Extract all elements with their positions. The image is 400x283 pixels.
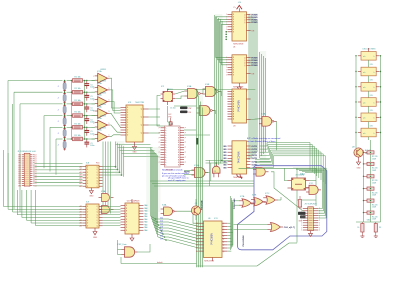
svg-text:J: J bbox=[58, 109, 59, 111]
svg-text:B: B bbox=[178, 157, 179, 159]
bus band left-center vertical bbox=[115, 142, 117, 169]
wire IC9 to U5 micro bbox=[103, 206, 121, 208]
resistor RL4 bbox=[367, 187, 374, 190]
wire input row 3 vertical drop bbox=[19, 104, 21, 212]
resistor RL6 bbox=[367, 211, 374, 214]
capacitor C1 bbox=[86, 81, 88, 84]
resistor R6 bbox=[73, 137, 83, 141]
capacitor C2 bbox=[86, 92, 88, 95]
socket X1 DIP40 bbox=[165, 126, 181, 167]
svg-text:1/4W: 1/4W bbox=[372, 219, 376, 221]
wire rails below IC5B bbox=[151, 180, 254, 182]
svg-text:D0: D0 bbox=[196, 229, 198, 231]
wire D4 to U6 bbox=[169, 231, 199, 239]
wire D0 to U6 bbox=[169, 219, 199, 226]
wire U6 right pins to bus bbox=[227, 222, 231, 224]
gate IC4B nand bbox=[206, 87, 217, 97]
net label dark block bbox=[298, 212, 306, 215]
svg-text:2: 2 bbox=[93, 111, 94, 113]
svg-text:P: P bbox=[185, 147, 186, 149]
svg-text:1/4W: 1/4W bbox=[372, 170, 376, 172]
svg-text:D0: D0 bbox=[196, 248, 198, 250]
wire xor feeds bbox=[234, 200, 240, 202]
svg-text:RA0: RA0 bbox=[144, 204, 147, 207]
display module S4 bbox=[361, 98, 376, 107]
bus staircase to IC9 inputs bbox=[3, 150, 5, 207]
U6 bottom pin gnd bbox=[212, 258, 214, 262]
svg-text:ROW4: ROW4 bbox=[252, 64, 259, 67]
svg-text:S: S bbox=[233, 75, 234, 77]
svg-text:RA0: RA0 bbox=[144, 221, 147, 224]
svg-text:74HC595N: 74HC595N bbox=[233, 44, 244, 46]
led D2 bbox=[374, 224, 377, 233]
svg-text:R1 10k: R1 10k bbox=[74, 77, 80, 79]
svg-text:J: J bbox=[58, 145, 59, 147]
display module S2 bbox=[361, 67, 376, 76]
wire 555 left feed bbox=[157, 96, 165, 127]
wire 555 to IC4A bbox=[175, 91, 185, 94]
wire bundle J1 to IC8 bbox=[35, 163, 83, 165]
svg-text:B: B bbox=[178, 159, 179, 161]
svg-text:IC4A: IC4A bbox=[187, 85, 192, 88]
svg-text:J: J bbox=[58, 86, 59, 88]
svg-text:B: B bbox=[178, 152, 179, 154]
wire rail inner top bbox=[239, 167, 317, 169]
wire display S4 chain down bbox=[368, 106, 370, 113]
crystal X2 bbox=[292, 178, 306, 190]
wire rails above IC5B bbox=[206, 159, 232, 161]
svg-text:P: P bbox=[159, 128, 160, 130]
svg-text:D0: D0 bbox=[196, 226, 198, 228]
svg-text:OUT0: OUT0 bbox=[252, 152, 258, 154]
gate IC9A inverter bbox=[102, 194, 110, 202]
wire input row 6 vertical drop bbox=[55, 139, 57, 175]
svg-text:ROW4: ROW4 bbox=[252, 59, 259, 62]
wire U3 to IC5A bbox=[251, 118, 260, 121]
wire input row 4 horizontal bbox=[44, 115, 63, 117]
svg-text:RA0: RA0 bbox=[144, 226, 147, 229]
display S6 pins bbox=[358, 132, 361, 134]
IC U9 74HC165 second bbox=[86, 204, 99, 228]
transistor Q1 bbox=[191, 206, 200, 215]
svg-text:RA0: RA0 bbox=[144, 223, 147, 226]
svg-text:A1: A1 bbox=[79, 211, 81, 214]
IC U8 74HC165 bbox=[86, 165, 99, 188]
cap rail vertical rows bbox=[84, 81, 86, 140]
wire IC6B output right bbox=[138, 244, 151, 252]
svg-text:ROW4: ROW4 bbox=[252, 56, 259, 59]
wire bottom rail right and diagonal bbox=[197, 265, 258, 267]
wire input row 5 vertical drop bbox=[49, 127, 51, 171]
gate IC5B and down bbox=[213, 166, 221, 173]
svg-text:RA0: RA0 bbox=[144, 215, 147, 218]
capacitor C6 bbox=[86, 139, 88, 142]
wire verticals left of IC5B bbox=[209, 160, 211, 186]
svg-text:B: B bbox=[178, 164, 179, 166]
op-amp IC1A comparator bbox=[98, 73, 108, 83]
svg-text:B: B bbox=[178, 150, 179, 152]
wire D5 to U6 bbox=[169, 234, 199, 242]
svg-text:1: 1 bbox=[109, 135, 110, 137]
wire rail inner right vertical bbox=[315, 168, 317, 206]
svg-text:a b: a b bbox=[363, 102, 365, 104]
pin header JP2 bbox=[308, 207, 314, 231]
gate IC6B and ICSP bbox=[125, 247, 135, 257]
svg-text:74HC245N: 74HC245N bbox=[238, 100, 241, 112]
svg-text:J1 CONN-SIL16 1x16: J1 CONN-SIL16 1x16 bbox=[17, 151, 35, 153]
wire rail jp top bbox=[297, 199, 316, 201]
capacitor C4 bbox=[86, 116, 88, 119]
bus ribbon shading bbox=[214, 14, 222, 168]
wire or feeds bbox=[234, 224, 268, 226]
svg-text:B: B bbox=[178, 140, 179, 142]
svg-text:IC6A: IC6A bbox=[162, 204, 167, 207]
display module S6 bbox=[361, 128, 376, 137]
wire Q8 stubs bbox=[358, 157, 360, 162]
wire D6 label row bbox=[165, 236, 169, 238]
IC U3 74HC245 bbox=[232, 89, 247, 123]
wire D2 label row bbox=[159, 224, 169, 226]
gate IC7C xor bbox=[266, 196, 275, 204]
connector SV1 bbox=[63, 83, 66, 90]
capacitor C5 bbox=[86, 127, 88, 130]
wire D0 label row bbox=[156, 218, 169, 220]
svg-text:R1 10k: R1 10k bbox=[74, 88, 80, 90]
svg-text:R1 10k: R1 10k bbox=[74, 135, 80, 137]
connector chain rail rows bbox=[64, 81, 66, 141]
bus outline blue polygon bbox=[238, 166, 327, 250]
svg-text:A1: A1 bbox=[79, 213, 81, 216]
svg-text:A1: A1 bbox=[79, 177, 81, 180]
bus entry D4 bbox=[155, 228, 162, 231]
wire D3 to U6 bbox=[169, 228, 199, 236]
svg-text:D0: D0 bbox=[196, 235, 198, 237]
svg-text:2: 2 bbox=[93, 135, 94, 137]
svg-text:P: P bbox=[185, 128, 186, 130]
svg-text:P: P bbox=[185, 137, 186, 139]
U4 bottom bent stubs bbox=[237, 174, 242, 179]
op-amp IC2A comparator bbox=[98, 85, 108, 95]
svg-text:IC7C: IC7C bbox=[265, 193, 270, 195]
bus entry D5 bbox=[156, 231, 163, 234]
svg-text:GND: GND bbox=[89, 196, 94, 198]
junction node row 6 bbox=[64, 138, 66, 140]
display S5 pins bbox=[358, 116, 361, 118]
svg-text:S: S bbox=[233, 67, 234, 69]
IC U5 PIC16F628 bbox=[125, 203, 139, 234]
bus entry D3 bbox=[153, 225, 160, 228]
wire crystal connections bbox=[285, 168, 288, 180]
wire IC3 outputs to socket bbox=[149, 108, 161, 110]
svg-text:RA0: RA0 bbox=[144, 210, 147, 213]
wire socket to gates bbox=[184, 129, 196, 131]
svg-text:A1: A1 bbox=[79, 216, 81, 219]
connector SV2 bbox=[63, 94, 66, 101]
wire op-amp 3 output bbox=[110, 102, 121, 113]
svg-text:LM393: LM393 bbox=[100, 92, 106, 94]
wire input row 6 horizontal bbox=[56, 138, 63, 140]
wire ladder bottom join bbox=[356, 221, 381, 223]
svg-text:IC7B: IC7B bbox=[252, 195, 257, 197]
svg-text:IC12: IC12 bbox=[309, 183, 313, 185]
wire input row 1 horizontal bbox=[8, 80, 63, 82]
wire op-amp 6 output bbox=[110, 135, 121, 137]
svg-text:1/4W: 1/4W bbox=[372, 195, 376, 197]
svg-text:IC4B: IC4B bbox=[205, 84, 210, 86]
svg-text:B: B bbox=[178, 128, 179, 130]
wire JP2 right fan up bbox=[305, 173, 323, 209]
svg-text:D2: D2 bbox=[379, 227, 381, 229]
svg-text:P: P bbox=[159, 142, 160, 144]
wire G3 input rail bbox=[174, 105, 197, 107]
svg-text:S: S bbox=[233, 22, 234, 24]
wire D5 label row bbox=[163, 233, 169, 235]
svg-text:A1: A1 bbox=[79, 224, 81, 227]
svg-text:D0: D0 bbox=[196, 232, 198, 234]
svg-text:LM393: LM393 bbox=[100, 69, 106, 71]
svg-text:S: S bbox=[233, 29, 234, 31]
net label pill RESET bbox=[180, 111, 188, 114]
wire D3 label row bbox=[160, 227, 169, 229]
resistor RL2 bbox=[367, 162, 374, 165]
svg-text:ROW4: ROW4 bbox=[252, 62, 259, 65]
junction node row 4 bbox=[64, 115, 66, 117]
gate IC6A nand bbox=[164, 207, 173, 215]
wire IC8 outputs to junction dots bbox=[103, 166, 116, 168]
svg-text:PD1: PD1 bbox=[96, 162, 100, 164]
gate IC7D or bbox=[271, 223, 281, 232]
svg-text:P: P bbox=[185, 162, 186, 164]
vertical bundle right of IC8 bbox=[102, 142, 104, 207]
bus entry D2 bbox=[152, 222, 158, 225]
wire ladder rails bbox=[363, 150, 365, 222]
svg-text:all caps 100nF close to: all caps 100nF close to bbox=[168, 177, 189, 180]
ground flag below JP2 bbox=[310, 231, 312, 234]
wire right column right rail bbox=[380, 56, 382, 222]
resistor R1 bbox=[73, 79, 83, 83]
U5 bottom pin bbox=[131, 234, 133, 238]
wire D6 to U6 bbox=[169, 237, 199, 245]
transistor Q8 bbox=[354, 148, 363, 157]
svg-text:B: B bbox=[178, 147, 179, 149]
svg-text:N0122 resistor network: N0122 resistor network bbox=[162, 169, 183, 172]
connector SV4 bbox=[63, 118, 66, 125]
svg-text:DIS1 LED7SEG: DIS1 LED7SEG bbox=[363, 49, 376, 51]
svg-text:PULLDOWN: PULLDOWN bbox=[243, 235, 245, 247]
power flag below IC9 bbox=[94, 228, 96, 232]
svg-text:IC9A: IC9A bbox=[101, 190, 106, 193]
wire D7 to U6 bbox=[169, 240, 199, 248]
svg-text:R1 10k: R1 10k bbox=[74, 112, 80, 114]
svg-text:default: default bbox=[157, 261, 163, 264]
svg-text:BJT := Make sure they are conn: BJT := Make sure they are connected bbox=[247, 137, 280, 140]
connector SV3 bbox=[63, 106, 66, 113]
svg-text:U5 PIC16F628: U5 PIC16F628 bbox=[127, 201, 140, 203]
power symbol GND mid bbox=[238, 83, 240, 87]
svg-text:ROW0: ROW0 bbox=[252, 22, 259, 24]
svg-text:X2 16MHz: X2 16MHz bbox=[296, 175, 305, 177]
power symbol VCC top bbox=[238, 8, 240, 12]
wire IC5C output diagonal to JP2 bbox=[271, 172, 303, 211]
wire rail left vertical bbox=[296, 190, 298, 243]
wire U1 left loops bbox=[216, 17, 228, 58]
svg-text:D0: D0 bbox=[196, 223, 198, 225]
svg-text:RA0: RA0 bbox=[144, 218, 147, 221]
wire input row 2 vertical drop bbox=[13, 92, 15, 209]
svg-text:J: J bbox=[58, 121, 59, 123]
svg-text:2: 2 bbox=[93, 76, 94, 78]
display S3 pins bbox=[358, 86, 361, 88]
svg-text:A1: A1 bbox=[79, 179, 81, 182]
svg-text:B: B bbox=[178, 137, 179, 139]
display module S5 bbox=[361, 113, 376, 122]
svg-text:J: J bbox=[58, 98, 59, 100]
bus entry D7 bbox=[158, 237, 166, 240]
svg-text:P: P bbox=[159, 137, 160, 139]
svg-text:S: S bbox=[233, 70, 234, 72]
wire IC6A output bbox=[177, 211, 199, 223]
wire D1 label row bbox=[157, 221, 169, 223]
svg-text:74HC595N: 74HC595N bbox=[204, 261, 214, 263]
svg-text:S: S bbox=[233, 65, 234, 67]
junction node row 5 bbox=[64, 127, 66, 129]
svg-text:P: P bbox=[185, 132, 186, 134]
op-amp IC6A comparator bbox=[98, 132, 108, 142]
svg-text:A1: A1 bbox=[79, 208, 81, 211]
wire display S5 chain down bbox=[368, 122, 370, 129]
svg-text:2: 2 bbox=[93, 88, 94, 90]
wire input row 4 vertical drop bbox=[43, 116, 45, 169]
svg-text:U3: U3 bbox=[233, 126, 235, 128]
svg-text:D0: D0 bbox=[196, 242, 198, 244]
wire IC6B feeds bbox=[118, 249, 122, 251]
wire D4 label row bbox=[162, 230, 169, 232]
display S1 pins bbox=[358, 55, 361, 57]
wire D1 to U6 bbox=[169, 222, 199, 229]
bus entry D0 bbox=[150, 216, 155, 219]
svg-text:NOTE: NOTE bbox=[184, 172, 190, 174]
op-amp IC5A comparator bbox=[98, 120, 108, 130]
svg-text:P: P bbox=[159, 132, 160, 134]
svg-text:J: J bbox=[58, 133, 59, 135]
svg-text:R1 10k: R1 10k bbox=[74, 123, 80, 125]
bus band center vertical to data fan bbox=[149, 148, 151, 216]
svg-text:1: 1 bbox=[109, 123, 110, 125]
svg-text:1/4W: 1/4W bbox=[372, 182, 376, 184]
svg-text:A1: A1 bbox=[79, 165, 81, 168]
wire display S3 chain down bbox=[368, 91, 370, 98]
gate IC10A and bbox=[195, 168, 206, 178]
wire bottom rail left bbox=[121, 263, 197, 265]
svg-text:JP2 ICSP-HDR: JP2 ICSP-HDR bbox=[304, 204, 317, 206]
svg-text:1: 1 bbox=[109, 111, 110, 113]
svg-text:a b: a b bbox=[363, 133, 365, 135]
svg-text:B: B bbox=[178, 162, 179, 164]
svg-text:OUT0: OUT0 bbox=[252, 155, 258, 157]
op-amp IC3A comparator bbox=[98, 97, 108, 107]
svg-text:GND: GND bbox=[93, 237, 98, 239]
wire op-amp 5 output bbox=[110, 125, 121, 132]
gate IC7B xor bbox=[254, 198, 263, 206]
svg-text:each IC supply pins: each IC supply pins bbox=[168, 180, 185, 182]
svg-text:D0: D0 bbox=[196, 251, 198, 253]
connector J1 header bbox=[24, 153, 30, 186]
display module S1 bbox=[361, 52, 376, 61]
wire input row 5 horizontal bbox=[50, 126, 63, 128]
wire U4 outputs fan to header bbox=[260, 143, 311, 171]
bus band gates-down vertical bbox=[196, 90, 198, 268]
svg-text:a b: a b bbox=[363, 87, 365, 89]
wire right column left rail bbox=[355, 56, 357, 148]
IC U2 74HC595 bbox=[232, 55, 247, 83]
svg-text:PIC: PIC bbox=[169, 116, 173, 118]
junction node row 3 bbox=[64, 103, 66, 105]
wire input row 1 vertical drop bbox=[7, 81, 9, 207]
gate IC9B inverter bbox=[102, 206, 110, 214]
IC U1 74HC595 bbox=[232, 12, 247, 41]
svg-text:2: 2 bbox=[93, 100, 94, 102]
svg-text:LM393: LM393 bbox=[100, 104, 106, 106]
wire IC4C output to bus bbox=[212, 111, 215, 115]
wire fan left returns bbox=[255, 159, 270, 161]
IC U4 74HC245 bbox=[232, 141, 247, 174]
svg-text:RA0: RA0 bbox=[144, 207, 147, 210]
svg-text:A1: A1 bbox=[79, 219, 81, 222]
svg-text:S: S bbox=[233, 62, 234, 64]
svg-text:D0: D0 bbox=[196, 238, 198, 240]
svg-text:A1: A1 bbox=[79, 174, 81, 177]
svg-text:P: P bbox=[185, 157, 186, 159]
svg-text:IC11: IC11 bbox=[214, 218, 218, 220]
svg-text:IC7A: IC7A bbox=[240, 195, 245, 198]
display module S3 bbox=[361, 83, 376, 92]
junction node row 2 bbox=[64, 91, 66, 93]
capacitor C3 bbox=[86, 104, 88, 107]
resistor RL1 bbox=[367, 151, 374, 154]
svg-text:74HC595N: 74HC595N bbox=[211, 233, 214, 245]
wire input row 2 horizontal bbox=[14, 91, 63, 93]
wire input row 3 horizontal bbox=[20, 103, 63, 105]
wire op-amp 4 output bbox=[110, 113, 121, 127]
svg-text:A1: A1 bbox=[79, 168, 81, 171]
gate IC7A xor bbox=[242, 199, 251, 207]
svg-text:A1: A1 bbox=[79, 171, 81, 174]
svg-text:B: B bbox=[178, 145, 179, 147]
wire 555 bottom to socket bbox=[167, 106, 169, 122]
wire Q1 connections bbox=[195, 215, 197, 220]
svg-text:1: 1 bbox=[109, 100, 110, 102]
bus band column right A bbox=[248, 14, 250, 160]
svg-text:A1: A1 bbox=[79, 185, 81, 188]
svg-text:S: S bbox=[233, 57, 234, 59]
wire display S2 chain down bbox=[368, 76, 370, 83]
svg-text:D0: D0 bbox=[196, 245, 198, 247]
svg-text:LM393: LM393 bbox=[100, 116, 106, 118]
wire IC4B output to bus bbox=[218, 92, 221, 97]
resistor RL3 bbox=[367, 175, 374, 178]
svg-text:S: S bbox=[233, 72, 234, 74]
bus band column right B bbox=[259, 52, 261, 158]
svg-text:A1: A1 bbox=[79, 182, 81, 185]
svg-text:P: P bbox=[185, 142, 186, 144]
gate IC5C and bbox=[256, 168, 265, 177]
dark net label pill bbox=[196, 138, 198, 145]
gate IC4A nand bbox=[188, 89, 199, 99]
resistor R9 vertical bbox=[298, 200, 301, 208]
display S4 pins bbox=[358, 101, 361, 103]
U5 top pin bbox=[131, 199, 133, 203]
IC U6 74HC595 output bbox=[204, 221, 223, 258]
